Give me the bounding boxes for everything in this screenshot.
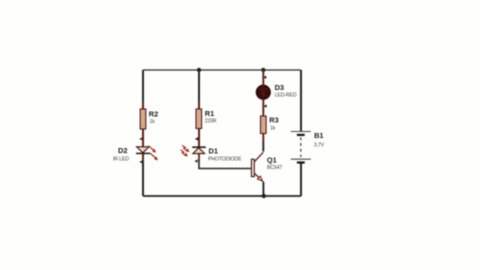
- svg-text:1k: 1k: [270, 125, 276, 131]
- node junction top D3: [261, 68, 265, 72]
- resistor R3: [261, 108, 279, 141]
- pin marker below D1: [194, 159, 197, 162]
- wire right vertical lower (from battery): [300, 163, 302, 196]
- wire left vertical: [142, 70, 144, 196]
- svg-text:D1: D1: [209, 147, 218, 156]
- wire D3 branch upper: [262, 70, 264, 85]
- diode D1 (photodiode): [181, 138, 242, 162]
- diode D2 (IR LED): [113, 138, 158, 162]
- pin marker above D3: [263, 76, 266, 79]
- node junction bottom emitter: [262, 194, 266, 198]
- svg-text:D3: D3: [275, 83, 284, 92]
- pin marker below R2: [139, 137, 142, 140]
- transistor Q1 (BC547): [250, 152, 282, 182]
- diode D3 (LED-RED): [256, 70, 297, 108]
- svg-text:PHOTODIODE: PHOTODIODE: [208, 156, 242, 162]
- svg-text:D2: D2: [118, 146, 127, 155]
- pin marker below D2: [139, 160, 142, 163]
- node junction top middle: [197, 68, 201, 72]
- svg-text:220R: 220R: [205, 119, 217, 125]
- wire middle branch upper: [198, 70, 200, 147]
- resistor R2: [140, 101, 158, 138]
- svg-text:B1: B1: [314, 131, 323, 140]
- svg-text:R2: R2: [149, 109, 158, 118]
- wire top rail: [143, 69, 301, 71]
- svg-text:BC547: BC547: [267, 165, 282, 171]
- wire emitter to bottom rail: [262, 182, 264, 196]
- svg-text:Q1: Q1: [267, 155, 277, 164]
- svg-text:R1: R1: [205, 109, 214, 118]
- svg-text:IR LED: IR LED: [113, 156, 129, 162]
- pin marker below R1: [195, 137, 198, 140]
- pin marker below D3: [264, 104, 267, 107]
- resistor R1: [196, 101, 217, 138]
- svg-text:1k: 1k: [150, 119, 156, 125]
- wire right vertical upper (to battery): [300, 70, 302, 131]
- battery B1: [291, 131, 325, 162]
- wire bottom rail: [143, 195, 301, 197]
- svg-text:LED-RED: LED-RED: [275, 92, 297, 98]
- svg-text:3.7V: 3.7V: [314, 142, 325, 148]
- wire D3 to R3: [262, 100, 264, 117]
- wire R3 to collector: [262, 134, 264, 152]
- wire middle branch lower to transistor base: [199, 154, 250, 169]
- svg-text:R3: R3: [269, 116, 278, 125]
